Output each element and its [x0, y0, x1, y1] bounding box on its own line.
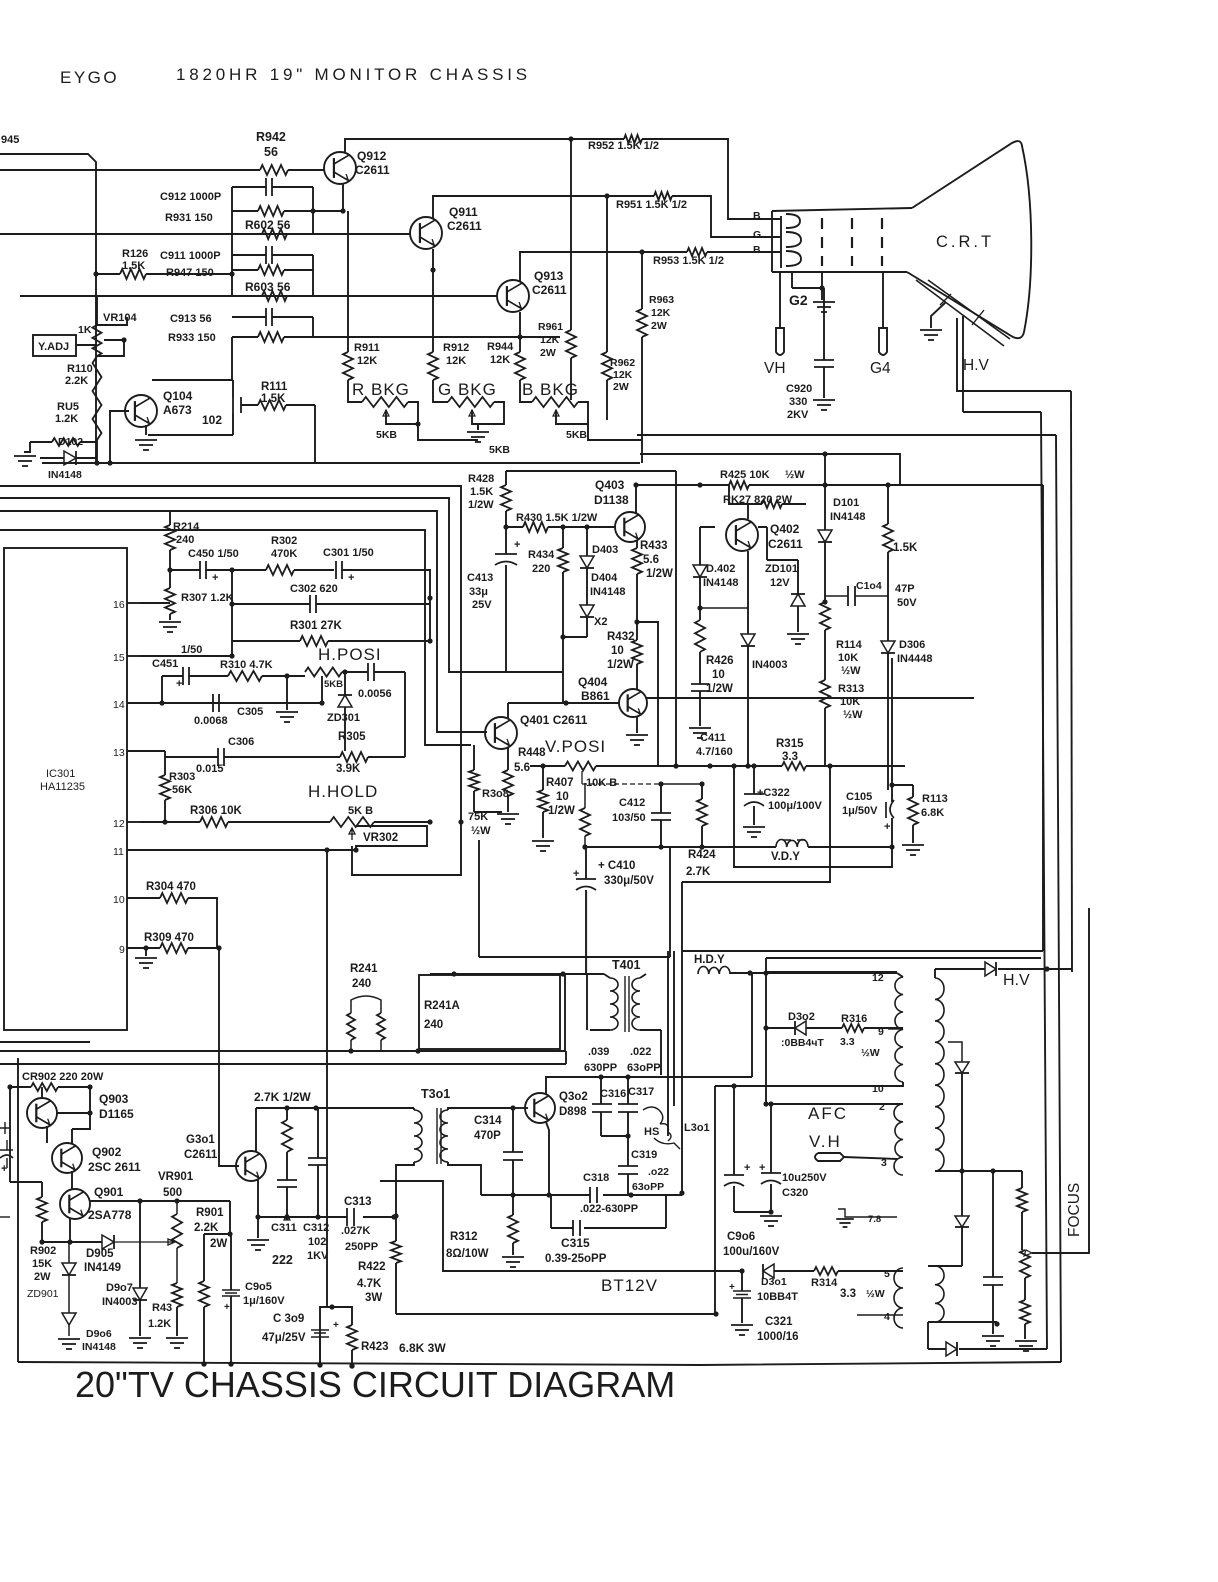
transistor Q302 [525, 1093, 555, 1123]
wire right margin box edge [1042, 485, 1044, 951]
wire R911 column [347, 211, 349, 352]
wire Q403 collector [636, 485, 729, 513]
svg-text:½W: ½W [471, 825, 491, 837]
wire D306 down [887, 653, 889, 790]
wire bundle 1 [0, 486, 461, 822]
svg-text:10u250V: 10u250V [782, 1172, 827, 1184]
wire V box left [478, 840, 480, 957]
wire [169, 550, 171, 588]
ground [14, 455, 36, 457]
resistor R603 [262, 291, 287, 301]
ground C920 [813, 399, 835, 401]
svg-text:C311: C311 [271, 1222, 297, 1234]
wire T301 left bottom [396, 1162, 414, 1216]
svg-text:R316: R316 [841, 1013, 867, 1025]
svg-text::0BB4чT: :0BB4чT [781, 1037, 824, 1049]
diode IN4003 [741, 634, 755, 646]
svg-text:25V: 25V [472, 599, 492, 611]
ground C322 [743, 826, 765, 828]
svg-text:.022: .022 [630, 1046, 651, 1058]
svg-text:15K: 15K [32, 1258, 52, 1270]
wire pin15 line [140, 655, 232, 657]
svg-text:1KV: 1KV [307, 1250, 329, 1262]
svg-text:1/2W: 1/2W [607, 659, 634, 671]
svg-text:R305: R305 [338, 731, 366, 743]
svg-text:4.7K: 4.7K [357, 1278, 382, 1290]
svg-text:9: 9 [119, 944, 125, 956]
wire [344, 707, 346, 751]
capacitor C912 [265, 178, 267, 196]
svg-text:5: 5 [884, 1268, 890, 1280]
wire emitter rail [42, 1241, 102, 1243]
wire R912 to G BKG [433, 380, 448, 402]
junction [568, 136, 573, 141]
transistor Q902 [52, 1143, 82, 1173]
transformer flyback primary w1 [895, 977, 903, 1082]
transistor Q403 [615, 512, 645, 542]
wire [959, 1348, 1047, 1350]
wire R901 riser [204, 1201, 230, 1281]
svg-text:R947 150: R947 150 [166, 267, 214, 279]
svg-text:C2611: C2611 [447, 219, 482, 233]
svg-text:1/2W: 1/2W [646, 568, 673, 580]
wire C105 col [891, 658, 893, 802]
wire diodes [586, 527, 588, 556]
svg-text:Q402: Q402 [770, 522, 800, 536]
wire pin 12 [127, 821, 140, 823]
resistor R953 [687, 248, 707, 256]
wire inner box right [675, 471, 677, 766]
wire bottom rail [18, 1362, 1061, 1365]
wire R448 [507, 748, 509, 770]
svg-text:Q902: Q902 [92, 1145, 122, 1159]
wire [96, 273, 120, 275]
ground pin 7.8 [838, 1209, 856, 1217]
pot focus [1020, 1250, 1030, 1278]
resistor R911 [343, 352, 353, 380]
transformer flyback primary w2 [894, 1104, 903, 1175]
svg-text:12K: 12K [490, 354, 510, 366]
svg-text:C321: C321 [765, 1316, 793, 1328]
svg-text:L3ο1: L3ο1 [684, 1122, 710, 1134]
capacitor C313 [346, 1208, 348, 1226]
pot R407 10K B [565, 762, 596, 771]
wire R425 line [749, 484, 1043, 486]
svg-text:10: 10 [113, 894, 125, 906]
svg-text:+: + [224, 1302, 230, 1313]
svg-text:3.9K: 3.9K [336, 763, 361, 775]
wire C920 [823, 288, 825, 360]
wire [140, 602, 170, 604]
connector V.H [815, 1153, 844, 1161]
svg-text:C302 620: C302 620 [290, 583, 338, 595]
svg-text:Q911: Q911 [449, 205, 478, 219]
resistor R111 [258, 400, 286, 410]
wire right margin long [1056, 435, 1061, 1362]
svg-text:IN4148: IN4148 [830, 511, 865, 523]
wire x682 riser [681, 882, 683, 1193]
svg-text:12K: 12K [651, 307, 671, 319]
svg-text:IN4148: IN4148 [590, 586, 625, 598]
wire T301 tops [414, 1108, 513, 1110]
svg-text:33μ: 33μ [469, 586, 488, 598]
wire secondary bottom1 [935, 1170, 1022, 1172]
wire [0, 154, 96, 463]
wire [232, 269, 258, 271]
ground R308 [497, 813, 519, 815]
wire afc cap1 [733, 1086, 735, 1175]
wire R902 [41, 1182, 43, 1197]
wire [699, 691, 701, 726]
main rail y463 [42, 462, 640, 464]
ground C305 [286, 676, 288, 710]
CRT anode lead lines [916, 280, 1004, 346]
wire vdy line [585, 846, 661, 848]
svg-text:+: + [759, 1162, 765, 1174]
capacitor C411 [691, 683, 709, 685]
svg-text:240: 240 [352, 978, 371, 990]
svg-text:R931 150: R931 150 [165, 212, 213, 224]
svg-text:Q912: Q912 [357, 149, 387, 163]
wire Q302 base [513, 1107, 528, 1109]
svg-text:12K: 12K [540, 334, 560, 346]
wire G4 electrode [882, 272, 884, 328]
wire BT12V rail [380, 1181, 742, 1271]
wire [374, 671, 405, 673]
svg-text:2.7K 1/2W: 2.7K 1/2W [254, 1090, 311, 1104]
svg-text:D403: D403 [592, 544, 618, 556]
svg-text:R424: R424 [688, 849, 716, 861]
resistor R951 [654, 192, 672, 200]
svg-text:C317: C317 [628, 1086, 654, 1098]
svg-text:R111: R111 [261, 381, 288, 393]
wire [641, 337, 643, 463]
wire [232, 603, 310, 605]
ground R113 [902, 844, 924, 846]
diode D101 [818, 530, 832, 542]
svg-text:R952 1.5K 1/2: R952 1.5K 1/2 [588, 140, 659, 152]
wire Q911 emitter [432, 249, 434, 352]
svg-text:Q3ο2: Q3ο2 [559, 1091, 588, 1103]
svg-text:C412: C412 [619, 797, 645, 809]
svg-text:+: + [176, 678, 182, 690]
svg-text:A673: A673 [163, 403, 192, 417]
wire [24, 442, 30, 452]
svg-text:½W: ½W [785, 469, 805, 481]
svg-text:5K B: 5K B [348, 805, 373, 817]
svg-text:12K: 12K [613, 369, 633, 381]
wire H.POSI net [321, 676, 323, 703]
svg-text:R310 4.7K: R310 4.7K [220, 659, 273, 671]
wire D301 line [774, 1270, 814, 1272]
svg-text:D3ο1: D3ο1 [761, 1276, 787, 1288]
wire T401 left bottom [590, 1029, 610, 1031]
ground focus [1015, 1340, 1037, 1342]
wire rail y435 [637, 434, 1056, 436]
svg-text:T3ο1: T3ο1 [421, 1087, 450, 1101]
wire rail riser [564, 974, 566, 1051]
wire R111 [241, 405, 315, 463]
pot B BKG [532, 397, 578, 407]
wire HV cap col [992, 1171, 994, 1277]
wire C322 [753, 766, 755, 794]
svg-text:470K: 470K [271, 548, 297, 560]
svg-text:R933 150: R933 150 [168, 332, 216, 344]
capacitor C312 [308, 1158, 328, 1165]
svg-text:1K: 1K [78, 324, 92, 336]
wire R953 to CRT pin B2 [707, 251, 780, 253]
svg-text:RU5: RU5 [57, 401, 79, 413]
svg-text:100μ/100V: 100μ/100V [768, 800, 822, 812]
svg-text:R313: R313 [838, 683, 864, 695]
svg-text:R942: R942 [256, 130, 286, 144]
wire T301 input [318, 1107, 414, 1109]
wire R113 [912, 785, 914, 797]
wire pin 16 [127, 602, 140, 604]
wire [176, 1307, 178, 1336]
wire left stub [0, 1216, 10, 1218]
wire x587 riser [587, 890, 590, 1030]
wire bundle 2 [0, 498, 506, 672]
svg-text:C320: C320 [782, 1187, 808, 1199]
wire vdy return box [734, 766, 892, 867]
svg-text:+: + [212, 572, 218, 584]
svg-text:C305: C305 [237, 706, 263, 718]
svg-text:222: 222 [272, 1253, 293, 1267]
transistor Q903 [27, 1098, 57, 1128]
wire C316 [600, 1077, 602, 1104]
svg-text:1/2W: 1/2W [706, 683, 733, 695]
wire R962 feed [606, 196, 608, 352]
svg-text:1/2W: 1/2W [548, 805, 575, 817]
svg-text:7.8: 7.8 [868, 1214, 881, 1225]
svg-text:4.7/160: 4.7/160 [696, 746, 733, 758]
svg-text:Q913: Q913 [534, 269, 564, 283]
svg-text:H.V: H.V [1003, 972, 1030, 989]
wire T401 right top [646, 697, 974, 699]
svg-text:D9ο7: D9ο7 [106, 1282, 133, 1294]
wire Y.ADJ to R110 [76, 344, 97, 346]
diode D306 [881, 641, 895, 653]
wire R432 [636, 622, 638, 640]
link C105-R113 [892, 784, 913, 786]
svg-text:H.V: H.V [963, 357, 990, 374]
svg-text:R3ο8: R3ο8 [482, 788, 509, 800]
diode ZD101 [791, 594, 805, 606]
diode D905 [102, 1235, 114, 1249]
svg-text:2.7K: 2.7K [686, 866, 711, 878]
svg-text:3.3: 3.3 [840, 1288, 856, 1300]
box Y.ADJ [33, 335, 76, 356]
capacitor AFC cap1 [724, 1174, 744, 1176]
transistor Q913 [497, 280, 529, 312]
svg-text:VR302: VR302 [363, 832, 398, 844]
wire R426 [699, 608, 701, 620]
wire focus line [1032, 908, 1089, 1253]
resistor R407 body [542, 766, 544, 790]
wire D101 [824, 454, 826, 530]
wire [570, 358, 572, 400]
wire x668 riser [667, 951, 669, 1136]
svg-text:R422: R422 [358, 1261, 386, 1273]
wire Q901 emitter [69, 1218, 71, 1242]
svg-text:5KB: 5KB [566, 429, 587, 441]
wire Q404 base line [566, 702, 620, 704]
wire V box bottom [479, 956, 670, 958]
CRT neck top [772, 208, 912, 211]
svg-text:D1138: D1138 [594, 493, 629, 507]
wire [96, 296, 98, 325]
wire ZD402-Q402 link [700, 607, 748, 609]
svg-text:1.2K: 1.2K [55, 413, 78, 425]
svg-text:C2611: C2611 [355, 163, 390, 177]
ground pin9 [145, 948, 147, 956]
svg-text:R963: R963 [649, 294, 674, 306]
resistor R963 [637, 309, 647, 337]
wire rail2 [0, 1063, 566, 1065]
svg-text:12K: 12K [357, 355, 377, 367]
wire third winding top [928, 1265, 962, 1267]
svg-text:C911 1000P: C911 1000P [160, 250, 221, 262]
wire pin 7.8 stub [856, 1216, 897, 1218]
svg-text:10: 10 [556, 791, 569, 803]
wire Q903 [42, 1087, 90, 1143]
wire outer left [17, 1058, 19, 1362]
wire pin10 line [888, 1082, 903, 1086]
svg-text:+: + [884, 821, 890, 833]
svg-text:R309 470: R309 470 [144, 932, 194, 944]
wire R424 [701, 784, 703, 799]
svg-text:Q404: Q404 [578, 675, 608, 689]
resistor R427 [762, 500, 782, 508]
svg-text:220: 220 [532, 563, 550, 575]
svg-text:12: 12 [872, 972, 884, 984]
svg-text:C301 1/50: C301 1/50 [323, 547, 374, 559]
svg-text:D306: D306 [899, 639, 925, 651]
wire HV top [934, 969, 936, 978]
wire R963 feed [641, 252, 643, 309]
svg-text:47μ/25V: 47μ/25V [262, 1332, 306, 1344]
svg-text:56: 56 [264, 145, 278, 159]
svg-text:R423: R423 [361, 1341, 389, 1353]
resistor R314 [814, 1267, 838, 1275]
wire pin13 line [127, 750, 165, 752]
svg-text:R434: R434 [528, 549, 555, 561]
transistor Q901 [60, 1189, 90, 1219]
wire afc gnd rail [734, 1211, 771, 1213]
wire C311 [286, 1187, 288, 1217]
wire x674 riser [673, 951, 675, 1106]
svg-text:63οPP: 63οPP [627, 1062, 661, 1074]
svg-text:+: + [744, 1162, 750, 1174]
wire [170, 569, 200, 571]
svg-text:B BKG: B BKG [522, 380, 579, 399]
svg-text:2KV: 2KV [787, 409, 809, 421]
wire bottom diode line [928, 1348, 946, 1350]
svg-text:IN4003: IN4003 [102, 1296, 137, 1308]
wire pin 13 [127, 750, 140, 752]
wire y637 [563, 636, 587, 638]
diode sec tap [955, 1216, 969, 1227]
capacitor C315 [572, 1220, 574, 1236]
svg-text:IN4148: IN4148 [48, 469, 82, 481]
svg-text:C315: C315 [561, 1236, 590, 1250]
CRT funnel [907, 141, 1031, 338]
ground HV cap [982, 1335, 1004, 1337]
wire Q401 collector [507, 703, 509, 718]
svg-text:D9ο6: D9ο6 [86, 1328, 112, 1340]
svg-text:Q104: Q104 [163, 389, 193, 403]
svg-text:1.5K: 1.5K [261, 393, 286, 405]
wire Q402 emitter [747, 551, 749, 562]
svg-text:500: 500 [163, 1187, 182, 1199]
wire T301 right bottom [448, 1162, 481, 1195]
wire C320 [770, 1104, 772, 1173]
wire pin12 line [140, 821, 200, 823]
wire [162, 676, 228, 703]
svg-text:R241A: R241A [424, 1000, 460, 1012]
svg-text:330: 330 [789, 396, 807, 408]
svg-text:X2: X2 [594, 616, 607, 628]
transistor Q402 [726, 519, 758, 551]
wire R407 rail [530, 765, 565, 767]
svg-text:ZD901: ZD901 [27, 1288, 59, 1300]
capacitor 0.0056 [367, 663, 369, 681]
svg-text:13: 13 [113, 747, 125, 759]
svg-text:IN4148: IN4148 [82, 1341, 116, 1353]
svg-text:EYGO: EYGO [60, 68, 119, 87]
wire left col [9, 1087, 11, 1182]
svg-text:V.D.Y: V.D.Y [771, 851, 800, 863]
wire R944 to B BKG [520, 380, 532, 402]
svg-text:R307 1.2K: R307 1.2K [181, 592, 234, 604]
IC301 box [4, 548, 127, 1030]
wire R961 feed [570, 139, 572, 330]
wire C313 line [258, 1216, 347, 1218]
wire HV line [935, 968, 985, 970]
svg-text:+: + [514, 539, 520, 551]
svg-text:IN4148: IN4148 [703, 577, 738, 589]
ground G2 [813, 301, 835, 303]
resistor R425 [729, 481, 749, 489]
wire C314 [512, 1108, 514, 1152]
svg-text:½W: ½W [861, 1047, 880, 1059]
wire R422 [395, 1217, 397, 1241]
wire R952 to CRT pin B [642, 139, 780, 219]
svg-text:C1ο4: C1ο4 [856, 580, 882, 592]
svg-text:630PP: 630PP [584, 1062, 617, 1074]
wire y974 line [430, 973, 604, 975]
svg-text:945: 945 [1, 134, 19, 146]
wire Q302 collector [546, 972, 752, 1094]
wire D905 [114, 1239, 175, 1245]
CRT gun electrodes [780, 216, 782, 268]
wire [288, 169, 325, 171]
svg-text:330μ/50V: 330μ/50V [604, 875, 654, 887]
resistor R942 [260, 165, 288, 175]
ground Q404 [626, 734, 648, 736]
wire Q911 base line [0, 233, 410, 235]
wire [96, 440, 98, 463]
svg-text:R426: R426 [706, 655, 734, 667]
wire [823, 367, 825, 398]
CRT grid dashes [821, 218, 823, 266]
svg-text:D.402: D.402 [706, 563, 735, 575]
capacitor C321 [733, 1291, 751, 1298]
svg-text:3W: 3W [365, 1292, 382, 1304]
wire pin 9 [127, 947, 140, 949]
wire R432 bypass [637, 622, 658, 766]
